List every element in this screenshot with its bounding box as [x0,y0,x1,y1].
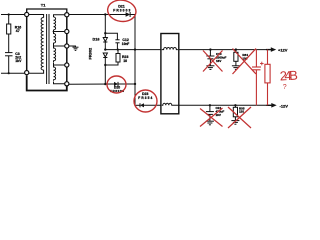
wire secondary tap 2 stub [54,30,65,32]
diode D23 [140,103,161,107]
annotation X over R34 [233,49,257,75]
ground R35 [231,121,239,125]
node D16 top [104,32,106,34]
svg-text:10: 10 [123,59,127,63]
svg-text:10nF: 10nF [122,42,129,46]
ground C23 [206,66,214,70]
annotation ellipse around D23 [134,90,157,112]
wire A snubber top [105,33,117,40]
wire bottom-left input rail [1,72,25,74]
svg-text:T1: T1 [41,3,46,8]
node D16 bottom wire C [104,64,106,66]
text labels black [15,3,288,117]
transformer T1 primary winding [41,18,43,71]
diode D20 [114,82,135,86]
node x135 D20 junction [134,83,136,85]
annotation X over R35 [228,107,251,128]
wire D16 column upper [104,15,106,38]
resistor R35 [233,105,237,120]
wire primary return around bottom [27,75,67,90]
annotation X over C24 [200,108,223,127]
added capacitor red [252,50,261,106]
choke module box [161,34,179,114]
wire +12V top rail [179,49,266,51]
wire D23 row start [135,104,140,106]
wire D20 row from transformer [69,83,114,85]
wire primary left column [26,17,28,71]
node secondary pin 4 [65,63,69,67]
wire main top rail y14.5 [69,14,128,16]
resistor R23 [105,50,120,65]
node secondary pin 2 [65,29,69,33]
transformer T1 secondary winding 1 [54,17,56,30]
node R35 junction [234,104,236,106]
svg-text:?: ? [283,84,287,91]
annotation X over C23 [203,51,223,72]
svg-text:16V: 16V [216,59,221,63]
red annotations [106,0,270,128]
svg-text:1kV: 1kV [15,59,22,63]
wire B middle rail to box [105,49,161,51]
transformer T1 primary bottom pin [25,71,29,75]
transformer T1 primary top pin [25,12,29,16]
arrow -12V output [267,103,277,108]
node C23 junction [209,48,211,50]
wire -12V bottom rail [179,104,267,106]
svg-text:24B: 24B [279,68,298,84]
svg-text:47: 47 [16,29,20,33]
inductor top coil in box [162,48,178,50]
node x135 top coil junction [134,48,136,50]
node D16 middle [104,48,106,50]
node C24 junction [209,104,211,106]
node secondary tap 2 [53,31,55,33]
node junction bottom-left [8,72,10,74]
transformer T1 secondary winding 3 [54,46,56,62]
svg-text:FR354: FR354 [138,96,152,100]
wire top hat over transformer [27,9,67,13]
transformer T1 secondary winding 4 [54,65,56,81]
resistor R16 [7,24,11,34]
capacitor C3 [5,53,13,56]
wire R16 top lead [8,15,10,25]
wire center tap to ground [69,46,76,47]
transformer T1 secondary top pin [65,13,69,17]
wire secondary bottom stub [54,82,65,84]
arrow +12V output [266,47,276,52]
svg-text:-12V: -12V [280,103,289,108]
capacitor C23 [206,50,214,66]
diode D21 [126,12,135,17]
svg-text:D16: D16 [93,38,100,42]
added capacitor plus sign [260,62,264,66]
transformer T1 core [47,14,49,84]
wire secondary top stub [54,15,65,17]
ground C24 [206,121,214,125]
node secondary pin 3 [65,44,69,48]
transformer T1 secondary winding 2 [54,32,56,45]
capacitor C12 [115,40,119,43]
ground R34 [232,66,240,70]
wire secondary tap 4 stub [54,63,65,66]
wire C3 bottom lead [8,56,10,73]
capacitor C24 [206,105,214,121]
annotation ellipse around D21 [106,0,137,23]
resistor R34 [234,50,238,66]
wire secondary pin bus [66,17,68,82]
node R34 junction [235,48,237,50]
node top rail / D16 column [104,13,106,15]
transformer T1 secondary bottom pin [65,82,69,86]
wire secondary tap 3 stub [54,44,65,46]
svg-text:FR302: FR302 [87,47,92,60]
wire top-left input rail [1,14,25,16]
wire vertical bus x135 [134,15,136,106]
node D20 row / D16 column [104,83,106,85]
added resistor red [265,50,270,106]
ground center tap [73,47,79,50]
svg-text:+12V: +12V [278,48,288,53]
inductor bottom coil in box [162,103,179,105]
wire R16 to C3 [8,34,10,53]
wire primary coil bottom stub [29,70,44,73]
annotation ellipse around D20 [107,76,126,93]
diode D16 lower [103,53,107,84]
wire primary coil top stub [29,15,44,18]
diode D16 upper [103,38,107,50]
svg-text:FR3003: FR3003 [113,8,130,12]
wire C12 bottom lead [116,43,118,50]
node junction top-left [8,13,10,15]
node C12/R23 junction [117,49,119,51]
